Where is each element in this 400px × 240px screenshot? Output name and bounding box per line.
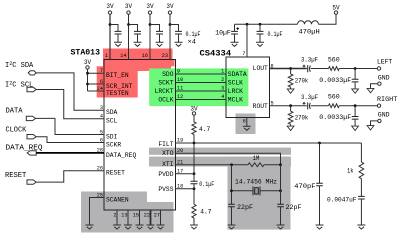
wire branch to decoupling cap #3 <box>150 25 160 32</box>
svg-text:470µH: 470µH <box>299 29 321 36</box>
svg-text:3: 3 <box>221 86 224 92</box>
ground 470pF <box>316 225 324 229</box>
ground pin 2 <box>113 225 121 229</box>
ground 0.0033uF LEFT <box>352 89 359 93</box>
svg-text:SCR_INT: SCR_INT <box>106 83 133 90</box>
capacitor 0.0033uF RIGHT <box>354 106 356 117</box>
highlight region: STA013 power/config pins (red) <box>97 49 175 98</box>
wire SCANEN to ground <box>90 198 105 226</box>
svg-text:3V: 3V <box>106 3 114 10</box>
svg-text:DATA: DATA <box>6 108 24 116</box>
svg-text:3.3µF: 3.3µF <box>301 94 318 101</box>
svg-text:3V: 3V <box>84 59 92 66</box>
wire branch to decoupling cap #2 <box>129 25 138 32</box>
svg-text:SCKT: SCKT <box>158 79 173 86</box>
wire down to 1k <box>360 143 362 162</box>
svg-text:×4: ×4 <box>188 39 197 46</box>
port GND LEFT <box>378 82 381 85</box>
svg-text:1: 1 <box>105 53 108 59</box>
svg-text:12: 12 <box>177 94 183 100</box>
svg-text:9: 9 <box>177 69 180 75</box>
wire down to 470pF <box>319 143 321 183</box>
wire resistor to FILT <box>193 135 195 144</box>
capacitor 0.0047uF <box>358 196 365 199</box>
ground 270k RIGHT <box>287 126 294 130</box>
wire crystal row right <box>260 190 281 192</box>
node junction PVDD <box>193 172 196 175</box>
ground pin 27 <box>157 225 165 229</box>
capacitor 3.3uF RIGHT (series, polarized) <box>308 102 311 109</box>
svg-text:2: 2 <box>221 77 224 83</box>
wire 3V pull-up rail <box>87 69 89 91</box>
highlight region: SCANEN and ground pins (gray block) <box>81 192 174 233</box>
svg-text:BIT_EN: BIT_EN <box>106 72 129 79</box>
ground PVSS filter <box>190 225 198 229</box>
node junction 0.0033uF LEFT <box>354 67 357 70</box>
resistor 1k <box>359 162 364 179</box>
wire GND RIGHT to ground <box>371 121 378 126</box>
wire 3V rail to STA013 pin 23 <box>169 14 171 59</box>
svg-text:270k: 270k <box>295 78 309 85</box>
node junction 470pF <box>318 142 321 145</box>
wire SDO to SDATA <box>176 73 227 75</box>
ground decoupling cap #1 <box>114 42 122 46</box>
capacitor C 10uF (polarized) <box>234 24 236 31</box>
svg-text:15: 15 <box>133 213 139 219</box>
node junction FILT/bus <box>193 142 196 145</box>
wire branch to decoupling cap #1 <box>110 25 118 32</box>
highlight region: XTO/XTI rows (gray band A) <box>149 148 291 155</box>
svg-text:27: 27 <box>154 213 160 219</box>
wire cap to 560 LEFT <box>311 68 329 70</box>
svg-text:26: 26 <box>97 166 103 172</box>
svg-text:SDI: SDI <box>106 134 118 141</box>
svg-text:10µF: 10µF <box>215 30 231 37</box>
svg-text:14.7456 MHz: 14.7456 MHz <box>235 178 277 185</box>
svg-text:RESET: RESET <box>106 170 125 177</box>
svg-text:22pF: 22pF <box>286 204 302 211</box>
wire LEFT output from chip <box>270 68 307 70</box>
capacitor 0.1uF #1 <box>115 31 122 34</box>
capacitor 0.1uF PVDD-PVSS <box>191 181 198 184</box>
svg-text:3V: 3V <box>166 3 174 10</box>
resistor 270k RIGHT <box>290 106 292 112</box>
wire 3V rail to STA013 pin 16 <box>149 14 151 59</box>
wire FILT net (long horizontal) <box>176 142 362 144</box>
wire 1k to 0.0047uF <box>360 179 362 197</box>
wire SCL net <box>36 90 104 119</box>
wire XTI net <box>176 164 249 166</box>
node junction CS4334 pin7 supply <box>246 23 249 26</box>
wire GND LEFT to ground <box>371 84 378 89</box>
wire RIGHT output from chip <box>270 105 307 107</box>
ground 0.0047uF <box>357 225 365 229</box>
svg-text:PVDD: PVDD <box>158 171 173 178</box>
svg-text:0.0033µF: 0.0033µF <box>319 77 351 84</box>
wire 560 to output RIGHT <box>339 105 377 107</box>
svg-text:14: 14 <box>120 53 126 59</box>
plus mark 3.3uF RIGHT <box>303 102 306 105</box>
svg-text:0.1µF: 0.1µF <box>268 31 283 38</box>
IC U2 CS4334 DAC body <box>226 57 270 118</box>
plus mark 3.3uF LEFT <box>303 65 306 68</box>
node junction 270k LEFT <box>289 67 292 70</box>
svg-text:XTI: XTI <box>162 161 174 168</box>
svg-text:0.1µF: 0.1µF <box>186 31 201 38</box>
svg-text:RIGHT: RIGHT <box>377 96 397 104</box>
svg-text:XTO: XTO <box>162 150 174 157</box>
resistor 4.7 (upper) <box>192 122 196 135</box>
wire PVSS stub <box>176 188 195 190</box>
node junction SCR_INT <box>86 83 89 86</box>
svg-text:SCL: SCL <box>106 118 118 125</box>
wire 1M to XTO node <box>264 164 281 166</box>
svg-text:3V: 3V <box>146 3 154 10</box>
svg-text:FILT: FILT <box>158 141 173 148</box>
svg-text:470pF: 470pF <box>294 183 316 190</box>
svg-text:LEFT: LEFT <box>377 59 392 67</box>
ground 270k LEFT <box>287 89 294 93</box>
highlight region: CS4334 pin 6 ground (gray patch) <box>236 114 256 135</box>
node junction 3V rail #3 <box>149 23 152 26</box>
ground pin 15 <box>136 225 144 229</box>
svg-text:SCANEN: SCANEN <box>106 197 129 204</box>
svg-text:RESET: RESET <box>5 172 27 180</box>
svg-text:24: 24 <box>97 86 103 92</box>
svg-text:SDATA: SDATA <box>228 71 247 78</box>
svg-text:22: 22 <box>144 213 150 219</box>
ground decoupling cap #2 <box>134 42 142 46</box>
svg-text:OCLK: OCLK <box>158 96 173 103</box>
node junction 3V rail #1 <box>109 23 112 26</box>
IC U1 STA013 MP3 decoder body <box>104 60 176 211</box>
resistor 560 LEFT <box>329 67 340 71</box>
ground VA decoupling cap <box>256 42 264 46</box>
svg-text:DATA_REQ: DATA_REQ <box>6 145 43 153</box>
svg-text:SDA: SDA <box>106 109 118 116</box>
wire cap to 560 RIGHT <box>311 105 329 107</box>
ground CS4334 pin 6 <box>243 126 251 130</box>
node junction 3V rail #2 <box>127 23 130 26</box>
wire cap to PVSS <box>193 184 195 205</box>
power 5V supply <box>334 11 337 14</box>
capacitor 22pF left <box>228 204 235 207</box>
svg-text:560: 560 <box>328 94 340 101</box>
ground GND LEFT <box>367 88 374 92</box>
wire inductor to 5V <box>319 14 337 24</box>
svg-text:SCKR: SCKR <box>106 142 121 149</box>
wire 3V rail to STA013 pin 14 <box>128 14 130 59</box>
svg-text:SDO: SDO <box>162 71 174 78</box>
wire to pin 6 SCR_INT <box>88 83 105 85</box>
node junction PVSS <box>193 187 196 190</box>
svg-text:4: 4 <box>100 114 103 120</box>
resistor 1M <box>248 163 264 167</box>
capacitor 470pF <box>316 183 323 186</box>
svg-text:10: 10 <box>177 77 183 83</box>
ground 22pF left <box>228 225 236 229</box>
svg-text:LOUT: LOUT <box>253 65 268 72</box>
wire CLOCK to SCKR <box>36 137 104 143</box>
svg-text:6: 6 <box>243 119 246 125</box>
ground 10uF cap <box>231 42 239 46</box>
capacitor 0.1uF #3 <box>156 31 163 34</box>
svg-text:1: 1 <box>221 69 224 75</box>
svg-text:0.0033µF: 0.0033µF <box>319 114 351 121</box>
svg-text:LRCKT: LRCKT <box>155 88 174 95</box>
wire crystal left leg <box>231 165 233 204</box>
port GND RIGHT <box>378 119 381 122</box>
svg-text:4: 4 <box>221 94 224 100</box>
svg-text:DATA_REQ: DATA_REQ <box>106 152 136 159</box>
capacitor 0.1uF #4 <box>175 31 182 34</box>
resistor 4.7 (lower) <box>192 204 196 218</box>
svg-text:2: 2 <box>113 213 116 219</box>
capacitor 0.0033uF LEFT <box>354 69 356 80</box>
wire DATA to SDI <box>36 118 105 134</box>
svg-text:22pF: 22pF <box>237 204 253 211</box>
svg-text:4.7: 4.7 <box>199 126 211 133</box>
wire bus down to PVDD <box>193 143 195 181</box>
svg-text:ROUT: ROUT <box>253 103 268 110</box>
svg-text:GND: GND <box>378 112 390 120</box>
node junction crystal right <box>279 189 282 192</box>
wire to ground <box>193 218 195 225</box>
highlight region: crystal network (gray block) <box>228 157 291 230</box>
wire PVDD stub <box>176 173 195 175</box>
plus mark 10uF <box>236 27 239 30</box>
wire to pin 7 BIT_EN <box>88 72 105 74</box>
wire 3V to resistor 4.7 <box>193 115 195 122</box>
svg-text:5V: 5V <box>332 5 340 12</box>
wire LRCKT to LRCK <box>176 90 227 92</box>
svg-text:1k: 1k <box>347 168 354 175</box>
svg-text:560: 560 <box>328 56 340 63</box>
node junction 3V rail #4 <box>169 23 172 26</box>
ground decoupling cap #4 <box>175 42 183 46</box>
capacitor 0.1uF (VA decoupling) <box>259 24 261 31</box>
svg-text:5: 5 <box>100 129 103 135</box>
svg-text:6: 6 <box>100 79 103 85</box>
port LEFT output <box>377 67 380 70</box>
node junction crystal left <box>230 189 233 192</box>
svg-text:3V: 3V <box>125 3 133 10</box>
svg-text:TESTEN: TESTEN <box>106 90 129 97</box>
capacitor 0.1uF #2 <box>134 31 141 34</box>
port RIGHT output <box>377 104 380 107</box>
inductor L1 470uH <box>298 21 319 25</box>
wire crystal right leg <box>280 165 282 204</box>
svg-text:11: 11 <box>177 86 183 92</box>
svg-text:PVSS: PVSS <box>158 186 173 193</box>
wire SCKT to SCLK <box>176 82 227 84</box>
wire OCLK to MCLK <box>176 99 227 101</box>
wire to pin 24 TESTEN <box>88 90 105 92</box>
ground pin 13 <box>124 225 132 229</box>
node junction XTI/crystal left <box>230 163 233 166</box>
svg-text:GND: GND <box>378 74 390 82</box>
svg-text:0.0047uF: 0.0047uF <box>327 197 357 204</box>
node junction 0.0033uF RIGHT <box>354 104 357 107</box>
wire SDA net <box>36 73 104 110</box>
ground decoupling cap #3 <box>156 42 164 46</box>
wire 3V rail to STA013 pin 1 <box>109 14 111 59</box>
wire 5V rail (top horizontal) <box>235 23 298 25</box>
svg-text:23: 23 <box>162 53 168 59</box>
svg-text:0.1µF: 0.1µF <box>199 181 214 188</box>
svg-text:CS4334: CS4334 <box>200 49 232 59</box>
ground GND RIGHT <box>367 126 374 130</box>
svg-text:MCLK: MCLK <box>228 96 243 103</box>
ground 22pF right <box>277 225 285 229</box>
capacitor 22pF right <box>277 204 284 207</box>
svg-text:4.7: 4.7 <box>200 209 212 216</box>
node junction BIT_EN <box>86 72 89 75</box>
resistor 560 RIGHT <box>329 104 340 108</box>
svg-text:1M: 1M <box>253 155 260 162</box>
svg-text:16: 16 <box>142 53 148 59</box>
svg-text:7: 7 <box>242 51 245 57</box>
svg-text:28: 28 <box>97 148 103 154</box>
wire XTO net <box>176 153 281 165</box>
svg-text:6: 6 <box>100 137 103 143</box>
wire RESET net <box>36 171 104 182</box>
highlight region: XTI row (gray band B) <box>149 157 291 167</box>
svg-text:SCLK: SCLK <box>228 79 243 86</box>
node junction XTO/crystal right <box>279 163 282 166</box>
svg-text:CLOCK: CLOCK <box>6 126 27 134</box>
ground pin 22 <box>147 225 155 229</box>
wire crystal row left <box>232 190 254 192</box>
svg-text:270k: 270k <box>295 115 309 122</box>
svg-text:STA013: STA013 <box>71 49 101 58</box>
svg-text:3.3µF: 3.3µF <box>301 57 318 64</box>
node junction 0.1uF <box>259 23 262 26</box>
svg-text:3: 3 <box>100 105 103 111</box>
svg-text:13: 13 <box>121 213 127 219</box>
capacitor 3.3uF LEFT (series, polarized) <box>308 65 311 72</box>
wire drop to CS4334 pin 7 <box>246 24 248 57</box>
wire branch to decoupling cap #4 <box>170 25 179 32</box>
highlight region: I2S audio data bus (green) <box>149 68 248 106</box>
node junction 270k RIGHT <box>289 104 292 107</box>
ground SCANEN <box>86 225 94 229</box>
crystal X1 14.7456 MHz <box>253 186 260 195</box>
ground 0.0033uF RIGHT <box>352 126 359 130</box>
wire 560 to output LEFT <box>339 68 377 70</box>
svg-text:7: 7 <box>100 68 103 74</box>
wire DATA_REQ net (bold) <box>36 152 104 154</box>
svg-text:LRCK: LRCK <box>228 88 243 95</box>
resistor 270k LEFT <box>290 69 292 75</box>
